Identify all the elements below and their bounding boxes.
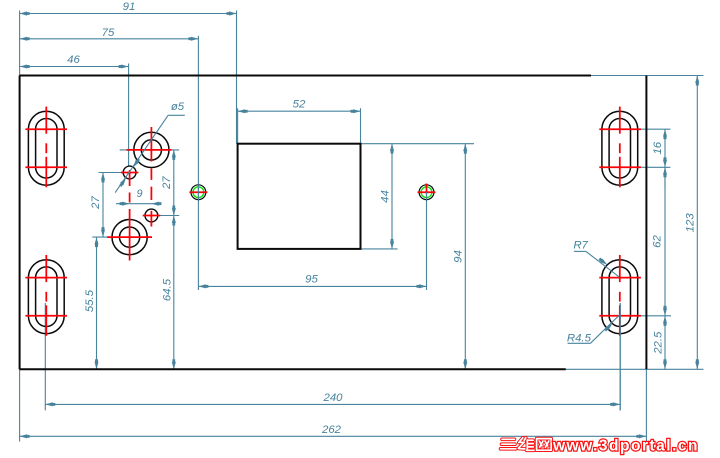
plate right edge xyxy=(645,76,647,370)
extension line 27/55.5 shared y=237.1 xyxy=(92,236,112,238)
svg-text:27: 27 xyxy=(90,196,102,210)
extension overlay 240-dim right over slot centerline xyxy=(619,303,621,410)
dimension 123 line xyxy=(696,76,698,370)
extension line 52-dim right xyxy=(360,108,362,144)
dimension 94 line xyxy=(464,144,466,370)
dimension 64.5 line xyxy=(173,216,175,370)
svg-text:75: 75 xyxy=(102,27,115,39)
centerline pin hole left xyxy=(189,191,207,193)
extension line 95-dim right x=426.5 xyxy=(426,192,428,290)
svg-text:www.3dportal.cn: www.3dportal.cn xyxy=(552,438,698,455)
extension line 16/62 shared y=167.3 xyxy=(620,166,671,168)
leader R4.5 line xyxy=(568,342,591,344)
svg-text:262: 262 xyxy=(321,424,342,436)
extension line 240-dim right x=620.2 xyxy=(619,303,621,410)
plate left edge xyxy=(19,76,21,370)
center rectangular cutout xyxy=(238,144,361,249)
svg-text:240: 240 xyxy=(322,392,343,404)
slot bottom-right outer xyxy=(602,260,638,334)
extension line 16-dim top y=129.2 xyxy=(620,128,671,130)
dimension 240 line xyxy=(45,403,620,405)
svg-text:44: 44 xyxy=(379,190,391,203)
extension line 240-dim left x=45.3 xyxy=(44,303,46,410)
dimension 27 left line xyxy=(102,173,104,238)
dimension 9 line outside arrows xyxy=(116,203,162,205)
slot bottom-left inner xyxy=(36,267,57,327)
centerline horizontal big hole lower xyxy=(107,236,152,238)
extension line 262-dim left xyxy=(19,369,21,441)
pin hole left outline xyxy=(191,185,206,200)
slot top-right outer xyxy=(602,111,638,185)
extension line through small circle y=215.5 xyxy=(144,215,179,217)
dimension 44 line xyxy=(391,144,393,249)
big hole upper outer xyxy=(134,132,169,167)
slot top-left outer xyxy=(28,111,64,185)
pin hole right green circle xyxy=(421,187,432,198)
extension line 46-dim right x=128.6 xyxy=(128,64,130,167)
plate bottom edge xyxy=(20,368,566,370)
svg-text:46: 46 xyxy=(67,54,80,66)
extension line 62/22.5 shared y=315.8 xyxy=(620,315,671,317)
extension line 75-dim right through hole x=198.4 xyxy=(197,36,199,290)
svg-text:95: 95 xyxy=(305,273,318,285)
svg-text:22.5: 22.5 xyxy=(653,331,665,355)
extension line 262-dim right xyxy=(645,369,647,441)
big hole lower outer xyxy=(112,220,147,255)
svg-text:94: 94 xyxy=(453,250,465,263)
leader diameter 5 line xyxy=(115,115,168,192)
centerline horizontal small hole upper xyxy=(121,172,138,174)
svg-text:55.5: 55.5 xyxy=(84,289,96,312)
dimension 22.5 line xyxy=(664,316,666,370)
small hole diameter5 upper xyxy=(123,166,136,179)
dimension 62 line xyxy=(664,167,666,315)
extension line through big circle y=149.9 xyxy=(120,149,179,151)
dimension 46 line xyxy=(20,66,129,68)
dimension 75 line xyxy=(20,38,199,40)
extension line 44/94 shared y=143.6 xyxy=(361,143,475,145)
dimension 16 line xyxy=(664,129,666,188)
plate top edge xyxy=(20,75,591,77)
slot top-right inner xyxy=(609,118,630,178)
centerline horizontal big hole upper xyxy=(127,149,172,151)
slot bottom-right inner xyxy=(609,267,630,327)
pin hole left green circle xyxy=(193,187,204,198)
svg-text:62: 62 xyxy=(652,235,664,248)
extension line 27-dim top left y=172.5 xyxy=(99,172,124,174)
big hole upper inner xyxy=(141,140,161,160)
svg-text:R4.5: R4.5 xyxy=(567,332,592,344)
big hole lower inner xyxy=(120,227,140,247)
centerlines slot bottom-right xyxy=(599,277,641,279)
leader R7 line xyxy=(574,250,586,252)
dimension 262 line xyxy=(20,435,647,437)
slot bottom-left outer xyxy=(28,260,64,334)
extension line left datum x=17.5 xyxy=(19,11,21,76)
svg-text:123: 123 xyxy=(684,213,696,233)
centerline horizontal small hole lower xyxy=(143,215,161,217)
svg-text:27: 27 xyxy=(161,176,173,190)
extension overlay through pin hole right xyxy=(426,192,428,200)
extension line 52-dim left xyxy=(237,108,239,144)
dimension 55.5 line xyxy=(96,237,98,369)
svg-text:91: 91 xyxy=(123,1,136,13)
small hole diameter5 lower xyxy=(145,209,158,222)
svg-text:16: 16 xyxy=(652,141,664,154)
centerline pin hole right xyxy=(418,191,436,193)
dimension 91 line xyxy=(20,13,237,15)
centerline column x=129.6 xyxy=(129,170,131,186)
extension line 123-dim bottom y=368 xyxy=(566,368,704,370)
svg-text:64.5: 64.5 xyxy=(162,278,174,301)
dimension 95 line xyxy=(198,285,426,287)
svg-text:9: 9 xyxy=(136,188,142,200)
pin hole right outline xyxy=(419,185,434,200)
extension line 44-dim bottom y=248.8 xyxy=(361,248,398,250)
svg-text:52: 52 xyxy=(293,99,306,111)
slot top-left inner xyxy=(36,118,57,177)
centerlines slot top-left xyxy=(25,128,67,130)
extension line 91-dim right x=236.5 xyxy=(236,11,238,144)
svg-text:ø5: ø5 xyxy=(171,101,185,113)
centerline column x=151.4 xyxy=(150,127,152,162)
centerlines slot top-right xyxy=(599,128,641,130)
extension overlay through pin hole left xyxy=(197,184,199,200)
watermark 3dportal xyxy=(501,438,698,455)
extension line 123-dim top y=74.5 xyxy=(591,75,704,77)
svg-text:R7: R7 xyxy=(573,240,588,252)
centerlines slot bottom-left xyxy=(25,277,67,279)
dimension 27 right line xyxy=(173,150,175,216)
dimension 52 line xyxy=(238,110,361,112)
